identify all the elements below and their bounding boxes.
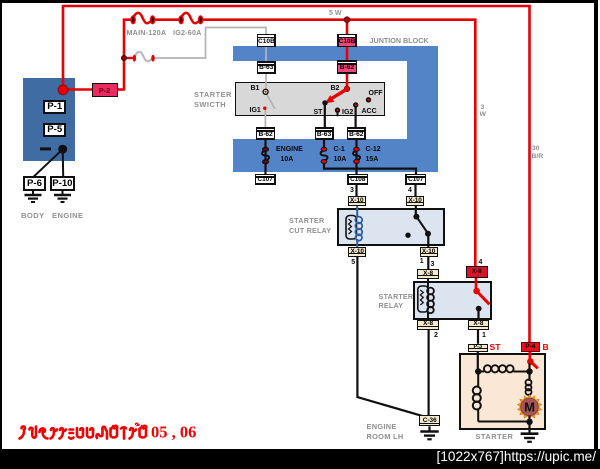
connector P-6	[23, 176, 46, 191]
label IG2-60A	[173, 29, 202, 36]
battery plus node red	[58, 85, 68, 95]
connector X-10 top right	[406, 196, 424, 206]
terminal B2	[344, 86, 350, 92]
wire C108 to X-10	[355, 184, 357, 197]
wire X-8 into starter relay coil	[427, 279, 429, 288]
connector X-8 bottom left	[417, 320, 439, 330]
connector X-8 top	[417, 269, 439, 278]
fuse MAIN-120A terminals	[131, 16, 135, 23]
fuse AM2 terminals	[133, 55, 136, 62]
wire C107 to X-10	[414, 184, 416, 197]
cut relay open contact	[405, 233, 410, 238]
wire gray AM2 branch to C10B	[154, 28, 267, 59]
junction block right column	[407, 46, 439, 172]
starter hold-in coil vertical left	[477, 372, 479, 387]
wire contact to X-8 pin1	[477, 309, 479, 320]
connector C107 left	[255, 174, 276, 185]
ground starter	[528, 422, 530, 434]
fuse IG2-60A coil	[181, 13, 201, 23]
connector P-4 red	[521, 342, 539, 351]
wire battery to P-10	[62, 149, 65, 177]
terminal ST	[322, 100, 327, 105]
pin 4 starter relay	[479, 259, 483, 266]
wire X-10 pin1 to X-8 pin3	[427, 256, 429, 270]
wire B-62 to C-12 fuse to C108	[355, 140, 357, 175]
connector X-10 top left	[348, 196, 366, 206]
wire P-3 into starter	[477, 351, 479, 372]
starter motor series coil	[526, 380, 532, 386]
switch arm B2 to ST red arrow	[332, 89, 348, 99]
starter relay body	[413, 281, 493, 320]
connector P-1	[43, 100, 66, 114]
thai caption	[16, 422, 196, 444]
connector B-63 top	[257, 61, 277, 74]
starter relay red arm	[477, 291, 490, 304]
label MAIN-120A	[127, 29, 167, 36]
battery minus dash	[40, 147, 51, 150]
connector X-8 bottom right	[468, 320, 489, 330]
ground ENGINE	[62, 191, 64, 195]
connector B-62 under ACC	[347, 127, 366, 140]
starter relay contact	[476, 306, 482, 312]
connector P-10	[50, 176, 75, 191]
node junction on riser	[121, 55, 126, 60]
wire red X-8 pin4 into relay	[475, 278, 478, 292]
connector P-2 red	[92, 83, 118, 97]
wire fuse rail from P-2 riser to right drop into X-8	[124, 20, 134, 90]
label ACC	[362, 108, 377, 115]
wire junction to C10B red drop	[346, 20, 349, 35]
cut relay coil core	[346, 216, 357, 240]
terminal IG1	[263, 107, 266, 110]
wire P-4 red into starter switch contact	[528, 351, 531, 362]
wire ACC to B-62	[355, 107, 357, 129]
wire X-10 pin5 down and diagonal to C-36	[357, 257, 421, 416]
connector X-8 red	[466, 266, 488, 278]
label C-12 15A fuse	[366, 146, 381, 153]
wire X-8 pin2 down to C-36	[428, 330, 430, 416]
cut relay switch arm	[416, 217, 428, 234]
pin 3 cut relay	[350, 187, 354, 194]
label STARTER CUT RELAY	[289, 217, 325, 224]
pin 3 starter relay	[431, 261, 435, 268]
node junction 5W rail	[344, 17, 350, 23]
starter solenoid red arm	[530, 362, 537, 369]
wire gray IG1 to B-62	[264, 110, 266, 129]
ground BODY	[32, 191, 34, 195]
label ENGINE 10A fuse	[276, 146, 303, 153]
wire gray C10B to B-63 through band	[265, 47, 267, 62]
label 30 B/R	[532, 146, 540, 153]
wire contact down to pull-in junction	[528, 364, 530, 382]
battery minus node	[58, 145, 67, 154]
fuse C-12 15A	[353, 151, 360, 161]
connector C108	[347, 174, 368, 185]
label C-1 10A fuse	[334, 146, 345, 153]
label ST red	[490, 343, 501, 352]
label STARTER bottom	[476, 433, 514, 440]
wire coil out to X-8 pin2	[427, 312, 429, 321]
label OFF	[369, 90, 383, 97]
wire battery to P-6	[34, 149, 63, 177]
connector X-10 bottom left	[348, 247, 366, 257]
pin 5 cut relay	[351, 259, 355, 266]
wire battery plus to P-2	[65, 88, 93, 91]
connector C107 right	[405, 174, 426, 185]
junction block top band	[233, 46, 438, 61]
connector C10B gray	[257, 34, 276, 48]
terminal OFF	[366, 97, 371, 102]
junction block bottom band	[233, 139, 438, 172]
wire gray B-63 to B1 terminal	[265, 73, 267, 91]
wire B-63 to C-1 fuse	[323, 140, 325, 150]
starter relay coil core	[418, 286, 429, 312]
connector B-62 under IG1	[256, 127, 276, 140]
label STARTER SWICTH	[194, 91, 232, 98]
ground C-36	[428, 426, 430, 431]
label IG1	[250, 107, 261, 114]
connector B-63 under ST	[315, 127, 334, 140]
label BODY	[21, 212, 45, 220]
fuse C-1 10A	[321, 151, 328, 161]
fuse ENGINE 10A	[262, 151, 269, 161]
connector C-36	[419, 415, 440, 426]
wire P-2 to riser	[116, 88, 125, 91]
pin 1 starter relay	[482, 332, 486, 339]
wire C-1 fuse to right C107	[324, 161, 416, 175]
wire C10B red to B-62 red	[346, 47, 349, 62]
wire motor to bottom node	[529, 416, 531, 423]
connector C10B red	[337, 34, 357, 48]
wire B-62 to ENGINE fuse to C107	[264, 140, 266, 175]
wire B-62 red to B2 terminal	[346, 73, 349, 89]
terminal IG2	[335, 108, 340, 113]
wire blue X-10 into cut relay coil	[356, 206, 358, 218]
pin 4 cut relay	[408, 187, 412, 194]
fuse MAIN-120A coil	[133, 13, 153, 23]
starter body	[459, 353, 546, 430]
starter relay coil loops	[427, 288, 434, 295]
motor M	[529, 394, 531, 397]
terminal B1	[263, 89, 268, 94]
cut relay coil blue loops	[355, 217, 362, 224]
wire IG2 stub	[337, 111, 339, 116]
fuse AM2 coil gray	[134, 52, 153, 61]
wire battery to top rail and down right side to P-4	[63, 6, 530, 342]
label ENGINE ROOM LH	[367, 423, 397, 430]
label B red	[543, 343, 549, 352]
wire X-8 pin1 down to P-3	[477, 330, 479, 344]
wire ST to B-63	[324, 104, 326, 128]
connector B-62 red	[337, 60, 357, 74]
wire X-10 to cut relay common	[415, 206, 417, 217]
battery body	[23, 78, 75, 161]
wire blue coil out to X-10	[356, 239, 358, 247]
switch arm B1 gray	[267, 94, 275, 109]
starter switch body	[235, 82, 385, 116]
bottom bar	[0, 449, 600, 469]
node starter left junction	[475, 368, 481, 374]
node starter right junction	[526, 368, 532, 374]
wire contact down to X-10	[427, 234, 429, 247]
label ENGINE under P-10	[52, 212, 84, 220]
wire starter bottom horizontal	[478, 421, 529, 423]
label ST	[314, 109, 323, 116]
label 5 W	[329, 10, 341, 17]
label IG2	[342, 109, 353, 116]
label STARTER RELAY	[379, 293, 414, 300]
terminal ACC	[353, 102, 358, 107]
label 3 W	[481, 105, 485, 112]
connector P-3	[468, 344, 488, 352]
starter cut relay body	[337, 208, 445, 247]
label JUNTION BLOCK	[370, 37, 429, 44]
connector P-5	[43, 123, 66, 137]
starter pull-in coil horizontal	[478, 371, 484, 373]
fuse IG2-60A terminals	[179, 16, 183, 23]
pin 2 starter relay	[434, 332, 438, 339]
connector X-10 bottom right	[420, 247, 438, 257]
pin 1 cut relay	[420, 258, 424, 265]
label B1	[251, 85, 260, 92]
label B2	[331, 85, 340, 92]
